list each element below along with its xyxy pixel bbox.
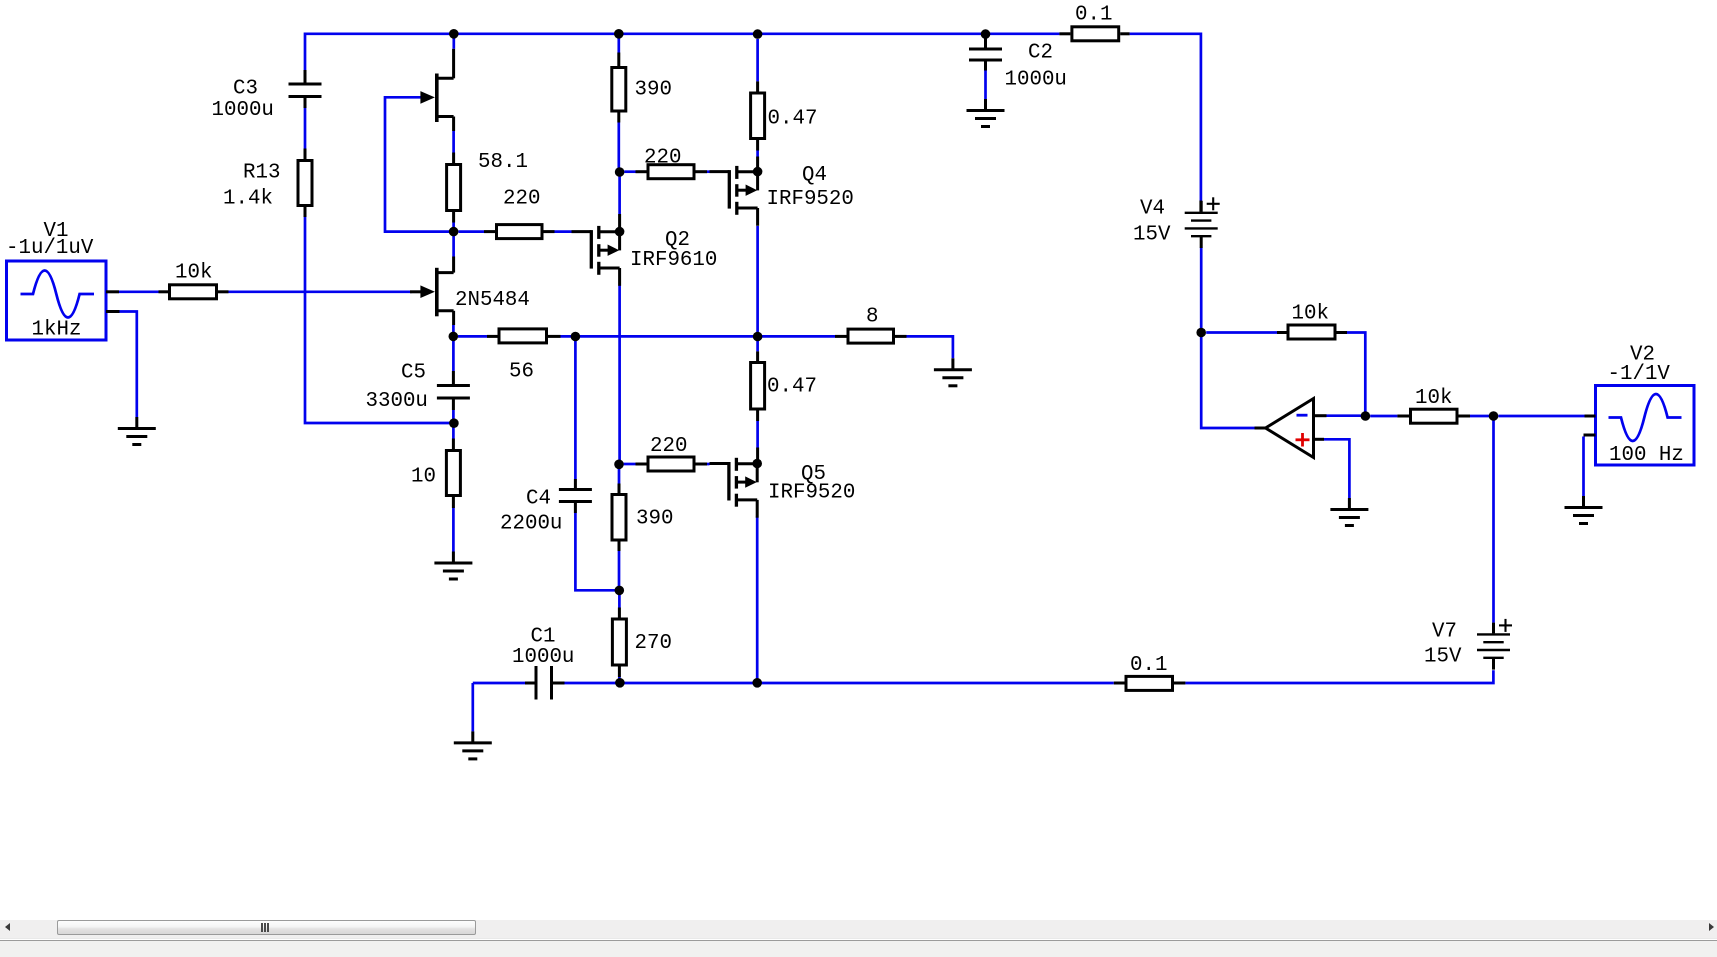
svg-text:C2: C2 [1028,42,1053,65]
svg-text:3300u: 3300u [366,390,428,413]
svg-text:15V: 15V [1133,224,1171,247]
svg-text:1000u: 1000u [512,646,574,669]
svg-text:8: 8 [866,306,878,329]
svg-text:C5: C5 [401,362,426,385]
svg-text:R13: R13 [243,162,280,185]
svg-text:1000u: 1000u [1005,69,1067,92]
svg-text:1kHz: 1kHz [32,319,82,342]
svg-text:100 Hz: 100 Hz [1609,444,1684,467]
svg-text:0.1: 0.1 [1130,654,1167,677]
svg-text:270: 270 [635,632,672,655]
svg-text:V7: V7 [1432,621,1457,644]
svg-text:1.4k: 1.4k [223,187,273,210]
svg-text:-1u/1uV: -1u/1uV [6,237,94,260]
svg-text:C4: C4 [526,488,551,511]
svg-text:0.47: 0.47 [768,108,818,131]
svg-text:IRF9520: IRF9520 [768,482,855,505]
svg-text:10k: 10k [1415,387,1452,410]
svg-text:-1/1V: -1/1V [1608,363,1671,386]
svg-text:220: 220 [644,147,681,170]
svg-text:2N5484: 2N5484 [455,289,530,312]
svg-text:390: 390 [636,508,673,531]
svg-text:56: 56 [509,361,534,384]
svg-text:10k: 10k [175,261,212,284]
svg-text:0.47: 0.47 [767,376,817,399]
svg-text:10: 10 [411,466,436,489]
svg-text:390: 390 [635,79,672,102]
svg-text:0.1: 0.1 [1075,4,1112,27]
svg-text:10k: 10k [1292,303,1329,326]
svg-text:IRF9520: IRF9520 [767,188,854,211]
svg-text:1000u: 1000u [212,99,274,122]
svg-text:58.1: 58.1 [478,151,528,174]
svg-text:220: 220 [503,187,540,210]
svg-text:C3: C3 [233,78,258,101]
svg-text:V4: V4 [1140,198,1165,221]
svg-text:2200u: 2200u [500,513,562,536]
svg-text:Q4: Q4 [802,164,827,187]
svg-text:IRF9610: IRF9610 [630,249,717,272]
svg-text:220: 220 [650,435,687,458]
svg-text:15V: 15V [1424,646,1462,669]
